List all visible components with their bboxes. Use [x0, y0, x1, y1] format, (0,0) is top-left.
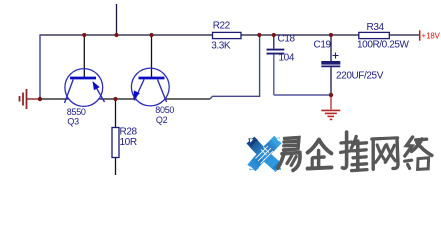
svg-text:100R/0.25W: 100R/0.25W — [357, 40, 410, 51]
svg-text:8550: 8550 — [67, 107, 86, 117]
svg-text:3.3K: 3.3K — [211, 41, 231, 52]
svg-text:C19: C19 — [314, 40, 332, 51]
svg-text:R22: R22 — [213, 20, 231, 31]
svg-text:R28: R28 — [120, 127, 138, 138]
svg-text:220UF/25V: 220UF/25V — [336, 70, 384, 81]
svg-text:104: 104 — [279, 52, 295, 63]
svg-text:8050: 8050 — [155, 105, 174, 115]
svg-text:18V: 18V — [426, 31, 440, 40]
svg-text:R34: R34 — [367, 22, 385, 33]
svg-text:C18: C18 — [278, 33, 296, 44]
svg-text:Q2: Q2 — [156, 115, 168, 125]
svg-text:Q3: Q3 — [67, 116, 79, 126]
svg-text:10R: 10R — [120, 137, 137, 148]
